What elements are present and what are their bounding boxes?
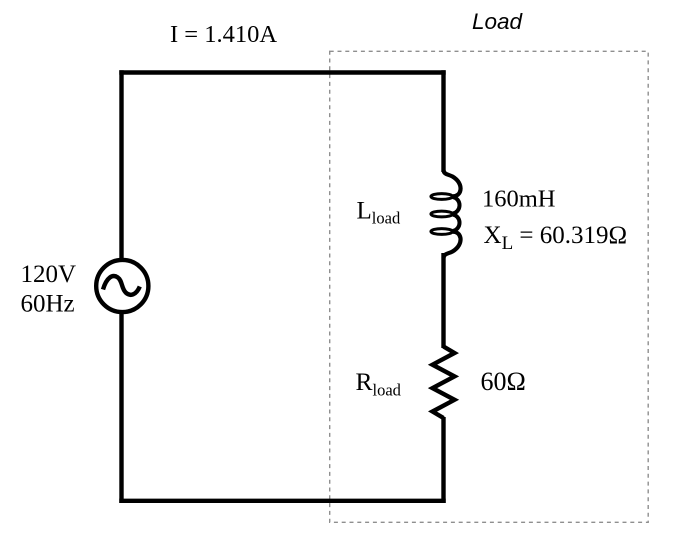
wire right lower <box>441 417 445 503</box>
svg-text:120V: 120V <box>21 261 77 288</box>
svg-text:Rload: Rload <box>356 367 402 400</box>
wire middle L to R <box>441 253 445 348</box>
wire left lower <box>119 313 123 503</box>
svg-text:Load: Load <box>472 9 524 34</box>
svg-text:Lload: Lload <box>357 198 401 228</box>
load boundary box <box>330 51 649 522</box>
svg-text:60Ω: 60Ω <box>481 367 526 396</box>
svg-text:XL = 60.319Ω: XL = 60.319Ω <box>484 222 628 254</box>
wire bottom <box>119 499 445 503</box>
wire left upper <box>119 70 123 262</box>
inductor Lload <box>431 170 461 258</box>
ac source V1 <box>96 260 148 312</box>
svg-text:60Hz: 60Hz <box>21 291 75 318</box>
svg-text:I = 1.410A: I = 1.410A <box>170 21 277 48</box>
wire right upper <box>441 70 445 172</box>
wire top <box>119 70 445 74</box>
svg-text:160mH: 160mH <box>482 186 556 213</box>
resistor Rload <box>433 347 455 419</box>
